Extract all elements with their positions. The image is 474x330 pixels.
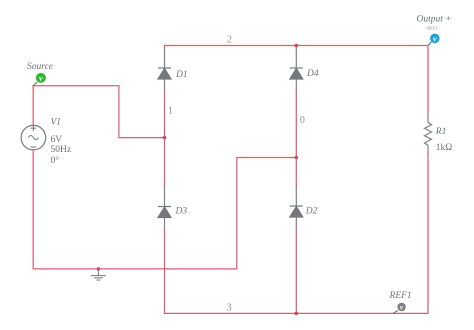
svg-text:Output +: Output + <box>417 15 452 25</box>
svg-text:1kΩ: 1kΩ <box>436 143 453 153</box>
svg-text:R1: R1 <box>435 127 447 137</box>
svg-text:D1: D1 <box>175 70 188 80</box>
svg-text:0: 0 <box>300 115 305 126</box>
svg-text:0°: 0° <box>51 155 60 166</box>
svg-text:v: v <box>39 73 43 83</box>
svg-text:6V: 6V <box>51 135 63 145</box>
svg-text:D2: D2 <box>305 207 318 217</box>
svg-text:Source: Source <box>27 62 53 72</box>
svg-text:v: v <box>433 33 437 43</box>
svg-text:REF1 -: REF1 - <box>426 26 441 31</box>
svg-text:V1: V1 <box>51 118 62 128</box>
svg-text:D3: D3 <box>175 207 188 217</box>
svg-text:50Hz: 50Hz <box>51 145 72 155</box>
svg-text:3: 3 <box>227 303 232 314</box>
svg-text:1: 1 <box>168 105 173 116</box>
svg-text:2: 2 <box>227 35 232 46</box>
svg-text:D4: D4 <box>306 69 319 79</box>
svg-text:REF1: REF1 <box>389 291 412 301</box>
